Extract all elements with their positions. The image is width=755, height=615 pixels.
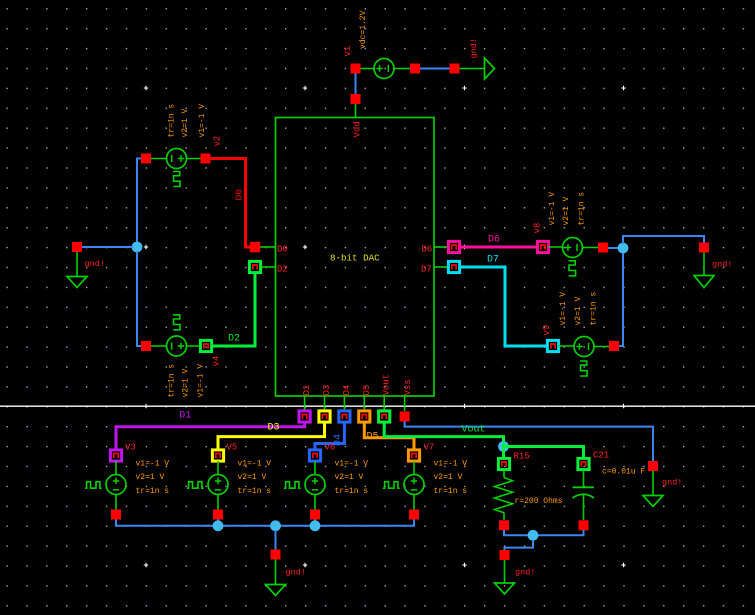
svg-text:v1=-1 V: v1=-1 V <box>559 292 568 326</box>
svg-text:gnd!: gnd! <box>469 38 479 58</box>
svg-text:8-bit DAC: 8-bit DAC <box>330 252 380 263</box>
pin D7 of DAC <box>421 261 460 274</box>
wire net D2 <box>212 273 256 347</box>
values V7 <box>434 460 468 497</box>
svg-text:D2: D2 <box>277 265 288 275</box>
junction Vout node <box>498 441 509 452</box>
label v9 <box>542 325 552 336</box>
values V9 <box>559 292 599 326</box>
svg-text:D7: D7 <box>487 255 499 266</box>
svg-text:r=200 Ohms: r=200 Ohms <box>515 497 563 506</box>
svg-text:v9: v9 <box>542 325 552 336</box>
label v4 <box>212 356 222 367</box>
svg-text:gnd!: gnd! <box>85 259 105 269</box>
pulse source V2 <box>141 149 211 187</box>
wire RC bus to ground <box>505 540 534 550</box>
svg-text:D2: D2 <box>228 334 240 345</box>
value vdc=1.2V <box>359 10 368 49</box>
net label D5 <box>367 432 379 443</box>
svg-text:v1=-1 V: v1=-1 V <box>548 192 557 226</box>
wire net D4 <box>315 422 344 450</box>
svg-text:D3: D3 <box>322 385 332 396</box>
wire bus to ground <box>275 530 277 550</box>
svg-text:vdc=1.2V: vdc=1.2V <box>359 10 368 49</box>
pin Vout of DAC <box>379 374 392 422</box>
label v1 <box>343 46 353 57</box>
svg-text:Vss: Vss <box>403 379 413 395</box>
ground left <box>67 242 87 288</box>
svg-text:tr=1n s: tr=1n s <box>335 487 369 496</box>
svg-text:v2=1 V: v2=1 V <box>181 108 190 137</box>
svg-text:v2=1 V: v2=1 V <box>238 473 267 482</box>
svg-text:tr=1n s: tr=1n s <box>434 487 468 496</box>
pulse source V6 <box>284 450 325 520</box>
svg-text:tr=1n s: tr=1n s <box>590 292 599 326</box>
svg-text:tr=1n s: tr=1n s <box>168 104 177 138</box>
net label D7 <box>487 255 499 266</box>
svg-text:v2=1 V: v2=1 V <box>182 368 191 397</box>
junction bus gnd <box>270 520 281 531</box>
svg-text:V3: V3 <box>125 443 136 453</box>
ground top (rotated right) <box>450 58 495 79</box>
svg-text:D1: D1 <box>179 411 191 422</box>
wire V8 to junction <box>608 247 620 249</box>
pin D0 of DAC <box>250 242 288 255</box>
svg-text:gnd!: gnd! <box>515 568 535 578</box>
svg-text:V7: V7 <box>424 443 435 453</box>
pin Vss of DAC <box>400 379 413 421</box>
net label Vout <box>462 424 486 435</box>
svg-text:V6: V6 <box>325 443 336 453</box>
ground below R15 <box>495 550 515 594</box>
8-bit DAC block I0 <box>276 118 435 397</box>
svg-text:D1: D1 <box>302 385 312 396</box>
svg-text:v2=1 V: v2=1 V <box>574 296 583 325</box>
svg-text:c=0.01u F: c=0.01u F <box>602 468 645 477</box>
pin D4 of DAC <box>339 385 352 422</box>
label V3 <box>125 443 136 453</box>
label R15 <box>514 451 530 461</box>
net label D4 <box>333 434 344 446</box>
svg-text:D6: D6 <box>422 245 433 255</box>
label V6 <box>325 443 336 453</box>
svg-text:v1: v1 <box>343 46 353 57</box>
label gnd! Vss <box>662 478 682 488</box>
svg-text:tr=1n s: tr=1n s <box>238 487 272 496</box>
wire net D6 <box>460 246 538 249</box>
net label D6 <box>488 235 500 246</box>
values V5 <box>238 460 272 497</box>
svg-text:v2=1 V: v2=1 V <box>335 473 364 482</box>
label gnd! right <box>712 260 732 270</box>
pulse source V4 <box>141 315 212 356</box>
svg-text:v1=-1 V: v1=-1 V <box>197 364 206 398</box>
svg-text:gnd!: gnd! <box>662 478 682 488</box>
values V2 <box>168 104 208 138</box>
pulse source V3 <box>85 450 126 520</box>
pulse source V8 <box>537 238 608 276</box>
wire V2 minus to gnd <box>137 159 141 244</box>
wire net D1 <box>116 422 305 450</box>
values V4 <box>168 364 206 398</box>
label gnd! bottom middle <box>286 568 306 578</box>
wire junction to right gnd <box>623 236 704 244</box>
ground right <box>694 243 714 288</box>
svg-text:v1=-1 V: v1=-1 V <box>198 104 207 138</box>
svg-text:v1=-1 V: v1=-1 V <box>136 460 170 469</box>
pulse source V5 <box>187 450 228 520</box>
junction bus V6 <box>310 520 321 531</box>
junction RC bus <box>528 530 539 541</box>
voltage source V1 (vdc=1.2V) <box>351 59 421 79</box>
svg-text:tr=1n s: tr=1n s <box>578 192 587 226</box>
svg-text:D6: D6 <box>488 235 500 246</box>
net label D0 <box>234 189 245 201</box>
values V6 <box>335 460 369 497</box>
wire junction down to V9 <box>619 253 623 346</box>
value r=200 Ohms <box>515 497 563 506</box>
net label D1 <box>179 411 191 422</box>
value c=0.01u F <box>602 468 645 477</box>
ground bottom middle <box>266 550 286 596</box>
wire net D0 <box>211 159 251 248</box>
wire gnd bus left <box>82 246 133 248</box>
svg-text:gnd!: gnd! <box>286 568 306 578</box>
svg-text:v1=-1 V: v1=-1 V <box>434 460 468 469</box>
svg-text:Vout: Vout <box>382 374 392 396</box>
wire net D3 <box>218 422 325 450</box>
svg-text:Vout: Vout <box>462 424 486 435</box>
junction bus V5 <box>213 520 224 531</box>
svg-text:D5: D5 <box>362 385 372 396</box>
wire junction to V4 <box>137 251 141 346</box>
svg-text:D4: D4 <box>342 385 352 396</box>
svg-text:R15: R15 <box>514 451 530 461</box>
svg-text:tr=1n s: tr=1n s <box>168 364 177 398</box>
wire RC ground bus <box>504 530 584 535</box>
net label D2 <box>228 334 240 345</box>
svg-text:gnd!: gnd! <box>712 260 732 270</box>
svg-text:D0: D0 <box>277 245 288 255</box>
wire net Vss <box>405 422 653 462</box>
label v2 <box>213 136 223 147</box>
label V7 <box>424 443 435 453</box>
svg-text:v1=-1 V: v1=-1 V <box>335 460 369 469</box>
values V3 <box>136 460 170 497</box>
junction left gnd node <box>132 242 143 253</box>
svg-text:v2=1 V: v2=1 V <box>562 196 571 225</box>
svg-text:D7: D7 <box>421 265 432 275</box>
wire net Vout <box>384 422 503 442</box>
pin D6 of DAC <box>422 241 460 254</box>
label C21 <box>593 451 609 461</box>
svg-text:D3: D3 <box>268 423 280 434</box>
svg-text:C21: C21 <box>593 451 609 461</box>
wire V1 minus to gnd <box>420 68 450 70</box>
net label D3 <box>268 423 280 434</box>
label v8 <box>533 223 543 234</box>
svg-text:v1=-1 V: v1=-1 V <box>238 460 272 469</box>
svg-text:tr=1n s: tr=1n s <box>136 487 170 496</box>
wire Vdd pin to DAC <box>355 104 357 118</box>
label gnd! top <box>469 38 479 58</box>
label gnd! left <box>85 259 105 269</box>
pin D2 of DAC <box>249 261 287 274</box>
label Vdd pin <box>353 121 363 137</box>
junction right gnd node <box>618 243 629 254</box>
label gnd! below R15 <box>515 568 535 578</box>
svg-text:v8: v8 <box>533 223 543 234</box>
svg-text:Vdd: Vdd <box>353 121 363 137</box>
pin D5 of DAC <box>359 385 372 422</box>
label V5 <box>227 443 238 453</box>
svg-text:V5: V5 <box>227 443 238 453</box>
pulse source V7 <box>383 450 424 520</box>
svg-text:v2=1 V: v2=1 V <box>434 473 463 482</box>
svg-text:v2: v2 <box>213 136 223 147</box>
pin Vdd square <box>351 94 361 104</box>
resistor R15 <box>495 458 513 530</box>
wire bottom ground bus <box>116 520 414 526</box>
svg-text:v4: v4 <box>212 356 222 367</box>
values V8 <box>548 192 587 226</box>
pin D3 of DAC <box>319 385 332 422</box>
wire Vout to R15 and C21 <box>504 443 584 459</box>
wire net D7 <box>460 267 548 346</box>
ground Vss right <box>643 461 663 507</box>
svg-text:D5: D5 <box>367 432 379 443</box>
svg-text:D0: D0 <box>234 189 245 201</box>
wire V1 plus to Vdd pin <box>355 74 357 95</box>
wire net D5 <box>364 422 414 450</box>
pulse source V9 <box>547 337 619 377</box>
pin D1 of DAC <box>299 385 312 422</box>
svg-text:v2=1 V: v2=1 V <box>136 473 165 482</box>
capacitor C21 <box>573 458 595 530</box>
